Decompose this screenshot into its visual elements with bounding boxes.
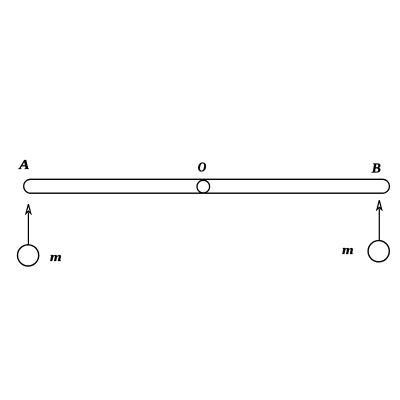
pivot circle O on rod [197,180,210,193]
svg-text:B: B [371,162,381,177]
left force arrow shaft [27,213,29,245]
svg-text:A: A [18,157,30,172]
right mass ball [368,241,389,262]
left arrowhead (open) [26,204,31,213]
rod AB (stadium shape) [24,179,390,193]
svg-text:O: O [198,161,207,176]
svg-text:m: m [342,242,353,257]
right arrowhead (open) [377,200,382,209]
svg-text:m: m [50,249,62,264]
right force arrow shaft [378,209,380,241]
left mass ball [18,245,39,266]
